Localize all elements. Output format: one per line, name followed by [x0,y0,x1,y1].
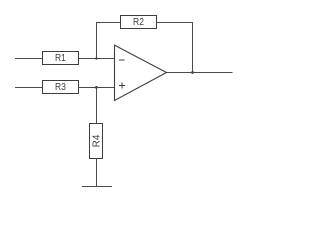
ground [82,186,112,188]
wire output [167,72,233,74]
wire junction down to R4 [96,88,98,124]
svg-text:R4: R4 [92,134,103,147]
wire R4 to ground [96,159,98,188]
svg-text:R3: R3 [55,82,66,93]
wire feedback vertical up from inverting input [96,22,98,59]
resistor R2 [121,16,157,29]
wire up to R2 [96,22,120,24]
wire input to R3 [15,87,42,89]
op-amp U1 [115,45,167,100]
resistor R4 [90,124,103,159]
node junction feedback at inverting input [95,57,97,59]
svg-text:R2: R2 [133,17,144,28]
node junction at non-inverting input [95,86,98,89]
wire R1 to op-amp inverting input [79,58,115,60]
wire feedback vertical down to output [192,22,194,73]
svg-text:R1: R1 [55,53,66,64]
wire R3 to op-amp non-inverting input [79,87,115,89]
resistor R1 [43,52,79,65]
wire input to R1 [15,58,42,60]
wire R2 to feedback corner [157,22,193,24]
resistor R3 [43,81,79,94]
node junction at output [191,71,194,74]
